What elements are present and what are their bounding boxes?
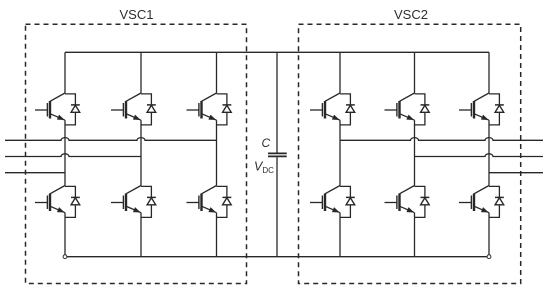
svg-text:VSC2: VSC2: [394, 7, 428, 22]
wire: leg 2 midpoint (phase b): [140, 125, 142, 186]
wire: Q4 emitter to negative rail: [140, 218, 142, 257]
wire: AC phase line 2 right (from VSC2 leg 2, hops leg 3): [415, 154, 544, 157]
capacitor C (DC-link): [268, 52, 287, 256]
IGBT Q3: [111, 93, 142, 125]
diode D2: [65, 186, 80, 217]
IGBT Q9: [385, 93, 416, 125]
wire: Q10 emitter to negative rail: [414, 218, 416, 257]
wire: AC phase line 1 left (to VSC1 leg 3, hops legs 1 and 2): [5, 138, 217, 141]
IGBT Q6: [187, 186, 218, 218]
diode D12: [489, 186, 504, 217]
VSC1 enclosure (dashed box): [26, 24, 247, 283]
wire: VSC2 leg 1 midpoint (phase a2): [339, 125, 341, 186]
wire: Q12 emitter to negative rail: [488, 218, 490, 257]
IGBT Q1: [35, 93, 66, 125]
wire: top rail to Q9 collector: [414, 52, 416, 93]
wire: leg 3 midpoint (phase c): [216, 125, 218, 186]
wire: VSC2 leg 3 midpoint (phase c2): [488, 125, 490, 186]
diode D4: [141, 186, 156, 217]
IGBT Q12: [459, 186, 490, 218]
IGBT Q10: [385, 186, 416, 218]
wire: AC phase line 3 right (from VSC2 leg 3): [489, 172, 543, 174]
svg-text:C: C: [262, 136, 271, 150]
IGBT Q11: [459, 93, 490, 125]
wire: Q8 emitter to negative rail: [339, 218, 341, 257]
wire: AC phase line 3 left (to VSC1 leg 1): [5, 172, 65, 174]
IGBT Q4: [111, 186, 142, 218]
IGBT Q5: [187, 93, 218, 125]
svg-text:VDC: VDC: [254, 160, 274, 176]
wire: top rail to Q11 collector: [488, 52, 490, 93]
wire: Q2 emitter to negative rail: [64, 218, 66, 257]
wire: VSC2 leg 2 midpoint (phase b2): [414, 125, 416, 186]
wire: DC-link negative rail (bottom bus): [65, 256, 489, 258]
node: open terminal bottom-left (negative rail end): [63, 255, 67, 259]
wire: top rail to Q7 collector: [339, 52, 341, 93]
diode D9: [415, 94, 430, 125]
wire: AC phase line 1 right (from VSC2 leg 1, hops legs 2 and 3): [340, 138, 543, 141]
IGBT Q7: [310, 93, 341, 125]
diode D7: [340, 94, 355, 125]
diode D1: [65, 94, 80, 125]
diode D5: [217, 94, 232, 125]
wire: top rail to Q1 collector: [64, 52, 66, 93]
diode D3: [141, 94, 156, 125]
diode D10: [415, 186, 430, 217]
wire: Q6 emitter to negative rail: [216, 218, 218, 257]
wire: top rail to Q3 collector: [140, 52, 142, 93]
IGBT Q2: [35, 186, 66, 218]
IGBT Q8: [310, 186, 341, 218]
diode D11: [489, 94, 504, 125]
svg-text:VSC1: VSC1: [120, 7, 154, 22]
wire: top rail to Q5 collector: [216, 52, 218, 93]
diode D6: [217, 186, 232, 217]
diode D8: [340, 186, 355, 217]
wire: leg 1 midpoint (phase a): [64, 125, 66, 186]
wire: DC-link positive rail (top bus): [65, 51, 489, 53]
VSC2 enclosure (dashed box): [299, 24, 521, 283]
node: open terminal bottom-right (negative rail end): [487, 255, 491, 259]
wire: AC phase line 2 left (to VSC1 leg 2, hops leg 1): [5, 154, 141, 157]
